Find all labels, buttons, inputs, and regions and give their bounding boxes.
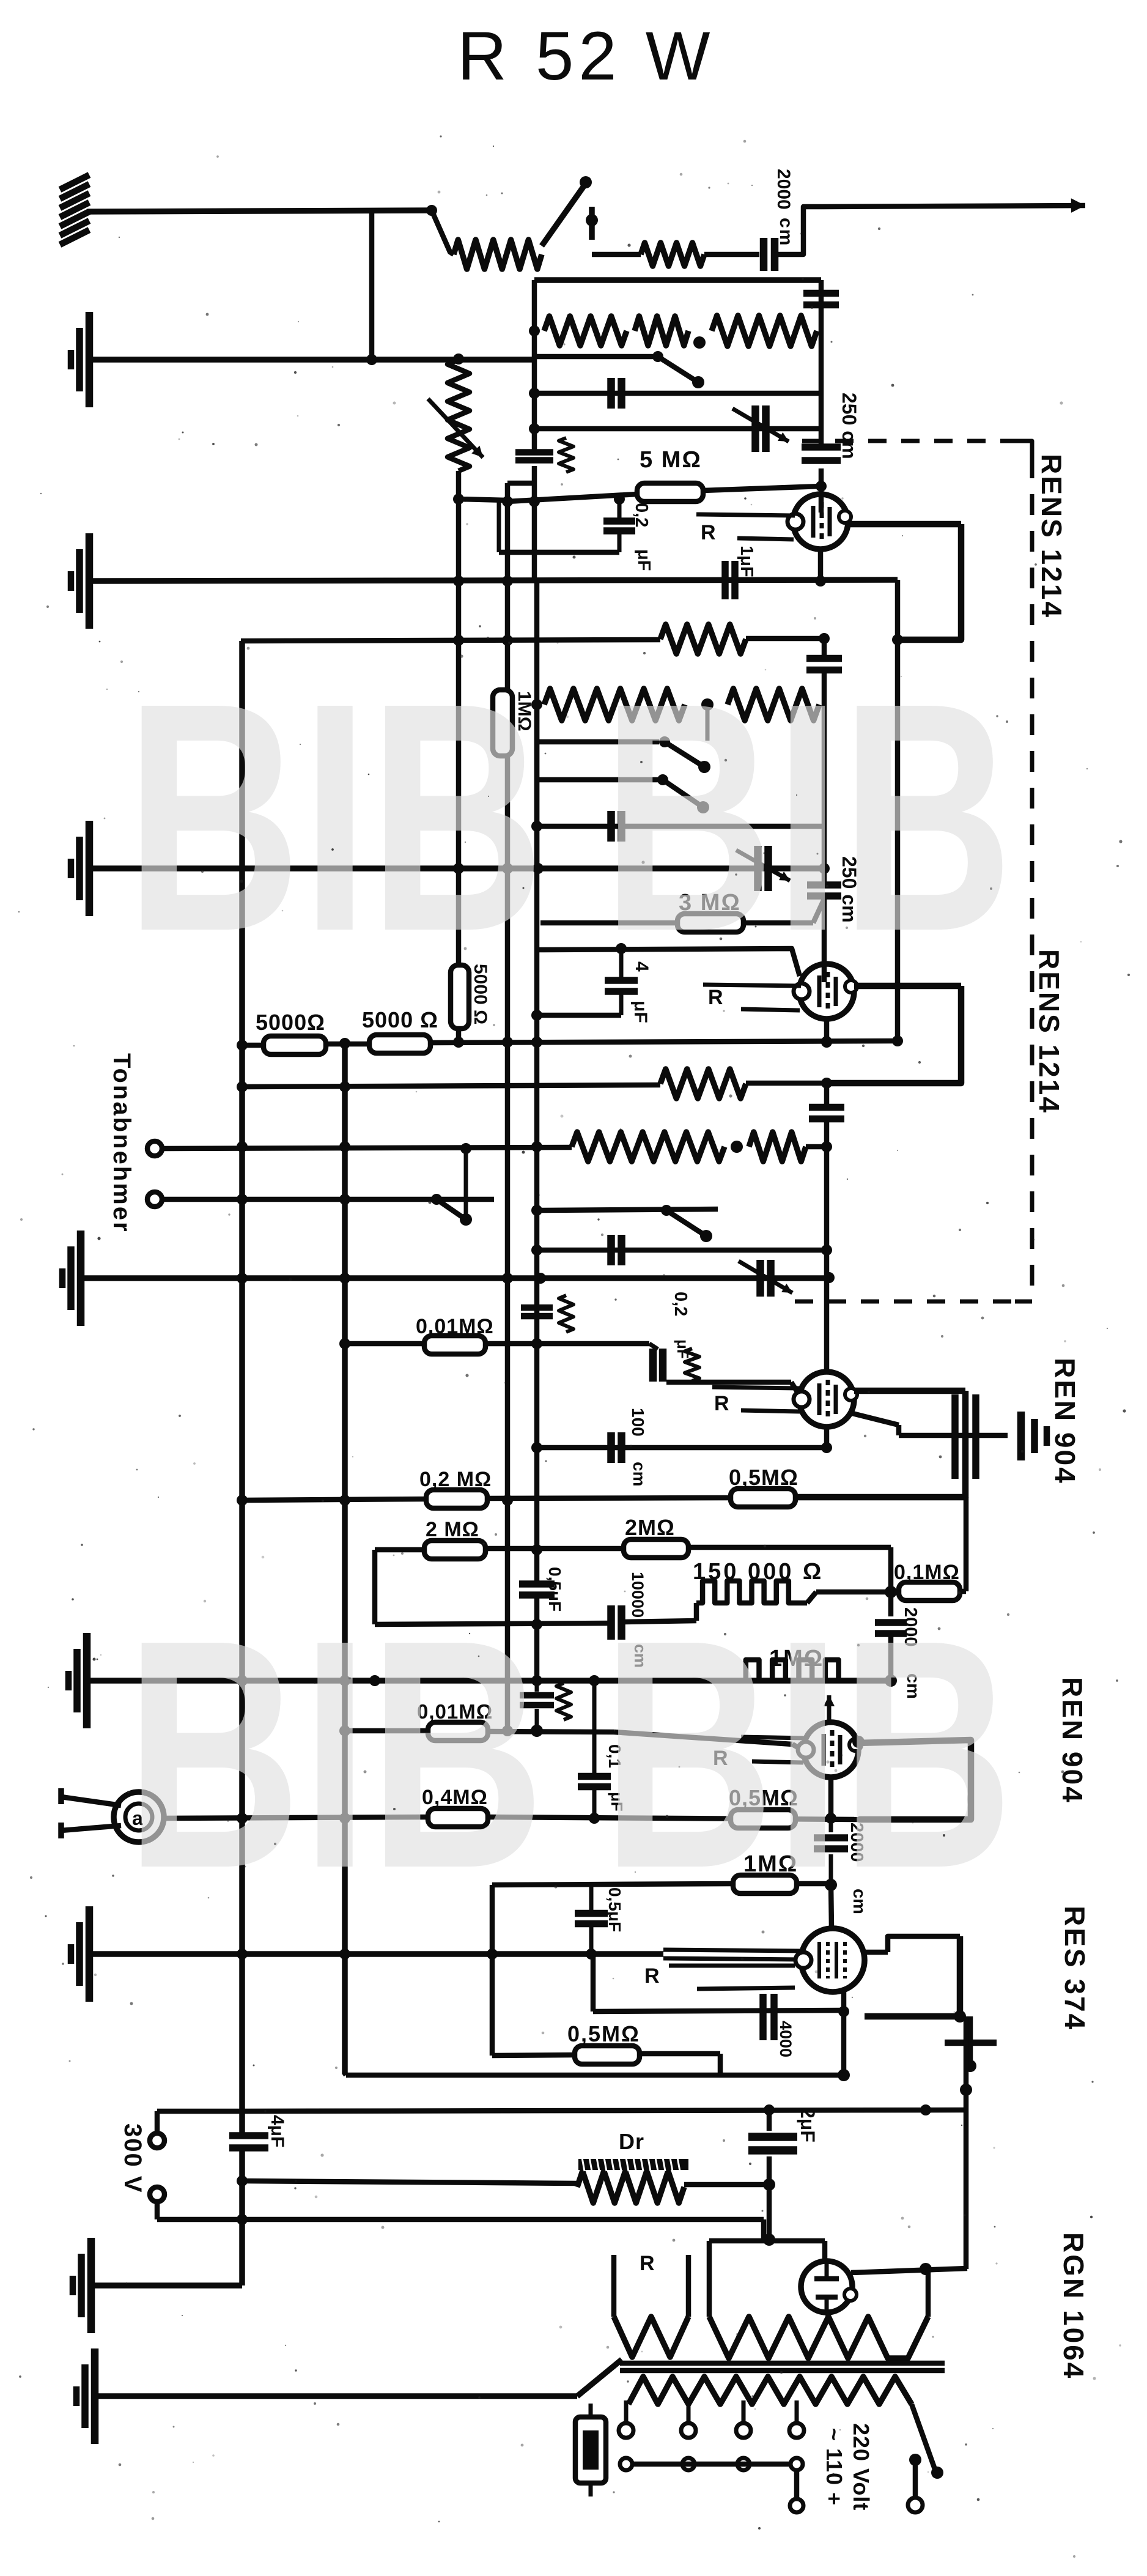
svg-text:cm: cm — [630, 1462, 649, 1486]
capacitor 250cm stage2 — [807, 881, 841, 889]
switch lever det — [661, 1205, 672, 1216]
svg-text:5000 Ω: 5000 Ω — [362, 1007, 438, 1032]
wire corner 613 — [372, 1550, 378, 1624]
dashed screen line stage1 — [802, 439, 1028, 443]
capacitor 250cm anode top — [803, 290, 839, 297]
wire rail G5 — [87, 1678, 893, 1684]
arrow output top right — [822, 205, 1085, 207]
wire V1 anode — [848, 521, 961, 528]
ground G1 — [68, 350, 75, 369]
switch lever box1 — [652, 351, 663, 362]
bus V_E grid-bias — [507, 481, 534, 486]
capacitor cathode RES374 — [759, 1994, 767, 2040]
tube V1 RENS1214 — [793, 494, 848, 549]
wire row 2367 — [540, 1445, 827, 1451]
capacitor grid AF — [535, 1681, 539, 1692]
box2 right edge upper — [822, 638, 827, 659]
capacitor anode2 — [806, 655, 842, 662]
wire rail 1704 — [242, 1043, 264, 1048]
capacitor 2uF — [767, 2110, 772, 2131]
wire rail G4 — [81, 1275, 829, 1281]
wire switch to resistor 2 — [592, 252, 641, 257]
wire meander to box — [807, 1592, 816, 1603]
resistor row 1777 — [660, 1069, 746, 1098]
capacitor box2 — [607, 811, 615, 842]
wire V5 anode — [865, 1950, 888, 1955]
svg-text:BIB: BIB — [602, 635, 1013, 999]
wire rail G3 (box2 bottom) — [89, 865, 824, 872]
transformer secondary teeth — [629, 2377, 912, 2404]
wire box1 varcap row — [534, 426, 821, 432]
wire row 3629 — [242, 2217, 764, 2223]
resistor 0,01Mohm AF — [428, 1722, 488, 1741]
switch lever box2a — [659, 736, 670, 747]
bus V_B — [342, 1043, 348, 2074]
resistor 1Mohm grid — [733, 1875, 797, 1893]
wire V2 anode — [854, 983, 961, 990]
wire V3 cathode right — [850, 1413, 899, 1425]
resistor 3Mohm — [677, 914, 743, 932]
ground G5 — [65, 1671, 72, 1690]
switch lever box2b — [657, 774, 668, 785]
svg-text:4000: 4000 — [776, 2021, 795, 2057]
node row 1875 tap — [731, 1141, 743, 1153]
node rail1704 — [339, 1038, 350, 1049]
node G3 junctions — [453, 863, 464, 874]
resistor 5000ohm b — [369, 1035, 430, 1053]
wire cap2000 det — [888, 1592, 894, 1616]
capacitor det anode — [809, 1104, 844, 1111]
resistor 0,5Mohm out — [575, 2046, 640, 2064]
watermark BIB — [125, 635, 1013, 1936]
coil row box2 — [544, 689, 685, 720]
wire rail G7 — [91, 2282, 242, 2289]
svg-text:100: 100 — [629, 1408, 647, 1437]
secondary tap 1 — [624, 2400, 629, 2423]
choke core bar — [578, 2159, 688, 2170]
switch lever antenna — [542, 183, 586, 246]
wire box2 cap row — [537, 824, 824, 829]
capacitor 2000cm AF — [829, 1818, 833, 1832]
wire row 3393 — [346, 2073, 844, 2078]
wire row 2534 — [375, 1547, 424, 1553]
svg-text:0,5MΩ: 0,5MΩ — [729, 1465, 798, 1490]
output terminal T — [945, 2040, 997, 2046]
bus V_E nodes — [502, 496, 513, 507]
capacitor 1uF cathode — [721, 561, 729, 599]
jack prongs — [61, 1797, 121, 1805]
svg-text:BIB: BIB — [125, 1572, 545, 1936]
svg-text:0,5μF: 0,5μF — [545, 1567, 564, 1612]
transformer core — [620, 2361, 945, 2366]
wire RGN bottom — [827, 2312, 828, 2318]
svg-text:RENS 1214: RENS 1214 — [1033, 949, 1065, 1114]
wire row 2197 — [345, 1341, 424, 1347]
ground G9 right — [1017, 1412, 1025, 1460]
svg-text:cm: cm — [776, 218, 796, 246]
ground G3 — [68, 859, 75, 878]
transformer heater leads — [611, 2255, 617, 2317]
resistor row anode2 — [660, 624, 746, 654]
wire row 3082 — [492, 1884, 733, 1885]
wire resistor2 to cap — [704, 252, 759, 257]
wire box2 lever row 2 — [537, 777, 659, 783]
wire row 1660 — [537, 1013, 621, 1018]
resistor antenna series — [454, 240, 542, 269]
tube V3 REN904 — [799, 1372, 854, 1427]
anode loop V2 — [827, 986, 961, 1083]
small coil glyph stage1 — [559, 438, 573, 472]
box1 right edge — [819, 280, 824, 446]
choke Dr winding — [577, 2171, 684, 2203]
wire meander up — [694, 1603, 699, 1621]
antenna — [60, 175, 89, 190]
dashed screen vertical — [1030, 457, 1035, 1289]
wire row 2830 — [345, 1728, 428, 1734]
trimmer capacitor box2 — [754, 846, 762, 891]
grid lead double line — [663, 1950, 802, 1951]
mains switch pin — [909, 2454, 921, 2466]
svg-text:220 Volt: 220 Volt — [849, 2423, 874, 2511]
resistor 5Mohm — [637, 483, 703, 502]
node G4 junctions — [237, 1273, 248, 1284]
svg-text:2000: 2000 — [773, 169, 794, 210]
node A1 — [426, 205, 437, 216]
wire row 2656 — [375, 1623, 611, 1624]
wire interstage V1 — [895, 580, 901, 1042]
bus V_B bottom corner — [345, 2073, 346, 2075]
wire row 3361 — [492, 2055, 575, 2056]
svg-text:0,5MΩ: 0,5MΩ — [567, 2021, 640, 2046]
node G6 junctions — [237, 1949, 248, 1960]
svg-text:RENS 1214: RENS 1214 — [1036, 454, 1068, 619]
wire row 2453 — [242, 1499, 428, 1500]
svg-text:300 V: 300 V — [119, 2123, 146, 2194]
bus V_G nodes — [529, 325, 540, 336]
wire V1 cathode to rail — [818, 549, 824, 581]
capacitor 0,5uF on V_G — [519, 1580, 555, 1588]
ground G7 — [70, 2276, 76, 2295]
capacitor grid stage2 — [619, 949, 624, 981]
resistor 1Mohm vertical — [493, 690, 512, 756]
wire grid row stage2 — [537, 949, 800, 976]
det right edge — [824, 1083, 830, 1107]
wire row 3289 — [593, 2010, 844, 2012]
mains switch lever — [912, 2404, 935, 2471]
wire row 3664 — [709, 2238, 825, 2244]
heater leads V1 — [696, 514, 795, 516]
wire cap to arrow — [775, 207, 822, 254]
wire V3 cathode down — [824, 1427, 830, 1448]
svg-text:0,2 MΩ: 0,2 MΩ — [419, 1468, 492, 1491]
wire row 2197 b — [486, 1341, 649, 1347]
svg-text:μF: μF — [634, 549, 654, 571]
phones jack — [114, 1792, 164, 1842]
capacitor row 2044 — [607, 1235, 615, 1265]
wire V3 anode — [854, 1388, 965, 1394]
heater leads V2 — [703, 985, 801, 986]
wire grid row stage1 — [507, 494, 637, 502]
resistor 0,1Mohm h — [899, 1582, 960, 1601]
resistor 5000ohm a — [264, 1036, 326, 1054]
bus V_G grid bus — [532, 280, 537, 451]
resistor 1Mohm meander — [739, 1660, 858, 1681]
wire to antenna resistor — [432, 210, 454, 254]
node coil top — [453, 353, 464, 365]
ground G2 — [68, 571, 75, 591]
output transformer loop — [865, 1936, 960, 2016]
tube V4 REN904 — [803, 1722, 858, 1777]
heater leads V5 — [669, 1964, 795, 1968]
wire rail G6 (output grid) — [89, 1951, 663, 1957]
wire row 3Mohm — [540, 920, 682, 926]
small coil glyph AF — [556, 1683, 571, 1720]
small resistor glyph det — [685, 1349, 699, 1381]
wire box1 cap row — [534, 391, 821, 396]
svg-text:1μF: 1μF — [737, 546, 756, 577]
svg-text:Dr: Dr — [619, 2129, 644, 2154]
resistor 0,5Mohm AF — [731, 1810, 795, 1828]
box2 left edge — [534, 705, 540, 868]
capacitor grid cap det — [649, 1349, 657, 1382]
capacitor left edge box1 — [515, 449, 553, 456]
heater leads V3 — [712, 1387, 801, 1388]
wire rail G1 — [89, 357, 534, 363]
wire row 1875 end — [806, 1144, 827, 1150]
svg-text:REN 904: REN 904 — [1057, 1677, 1088, 1804]
antenna coil — [448, 360, 470, 471]
svg-text:0,01MΩ: 0,01MΩ — [416, 1315, 494, 1338]
wire cathode row stage1 — [499, 550, 619, 555]
resistor 150000ohm — [696, 1581, 807, 1603]
wire rail G8 — [95, 2393, 577, 2399]
box1 top edge — [534, 277, 821, 283]
svg-text:2MΩ: 2MΩ — [625, 1515, 675, 1540]
resistor 0,4Mohm — [428, 1808, 488, 1827]
svg-text:BIB: BIB — [125, 635, 545, 999]
svg-text:5000Ω: 5000Ω — [256, 1010, 325, 1035]
svg-text:μF: μF — [674, 1339, 692, 1359]
bus V_A — [239, 641, 245, 2134]
dashed screen det — [795, 1300, 1015, 1304]
resistor 0,2Mohm — [426, 1490, 487, 1508]
wire RGN right — [851, 2268, 967, 2273]
capacitor 0,2uF stage1 — [497, 502, 501, 552]
svg-text:250 cm: 250 cm — [838, 393, 860, 459]
wire row 2973 — [164, 1817, 428, 1818]
wire B+ drop — [964, 2016, 969, 2269]
dashed screen corner — [1018, 441, 1032, 457]
wire row 1777 — [242, 1085, 660, 1087]
wire row 3452 — [242, 2110, 966, 2111]
switch lever pickup — [431, 1194, 442, 1205]
capacitor 250cm grid — [802, 443, 841, 451]
resistor 0,01Mohm det — [424, 1336, 485, 1354]
trimmer capacitor box1 — [751, 405, 759, 452]
svg-text:R: R — [644, 1964, 660, 1988]
resistor 5000ohm vertical — [451, 965, 469, 1029]
resistor row 1875 b — [749, 1132, 806, 1161]
wire 0,1Mohm up — [960, 1589, 966, 1594]
terminal Tonabnehmer 2 — [147, 1192, 162, 1207]
svg-text:RGN 1064: RGN 1064 — [1058, 2232, 1090, 2380]
svg-text:2 MΩ: 2 MΩ — [426, 1518, 479, 1541]
wire row 1979 — [540, 1209, 718, 1210]
wire node A1 down — [369, 212, 375, 361]
terminal Tonabnehmer 1 — [147, 1141, 162, 1156]
wire row 1961 — [163, 1197, 494, 1202]
wire grid to tube3 — [666, 1380, 791, 1385]
wire corner 1178 — [718, 2054, 723, 2075]
anode loop V1 — [898, 524, 961, 640]
secondary tap 4 — [795, 2400, 799, 2423]
bus V_A nodes — [237, 1040, 248, 1051]
ground G6 — [68, 1944, 75, 1964]
choke row — [242, 2181, 577, 2183]
capacitor 100cm — [607, 1432, 615, 1463]
capacitor 10000cm — [607, 1605, 615, 1640]
svg-text:R: R — [714, 1392, 729, 1415]
node A2 — [366, 354, 377, 365]
fuse — [575, 2417, 606, 2483]
resistor row 1875 a — [572, 1132, 725, 1161]
coil row box1 — [544, 316, 627, 346]
terminal 300V plus — [150, 2133, 164, 2148]
svg-text:0,2: 0,2 — [671, 1292, 690, 1316]
svg-text:R: R — [640, 2252, 655, 2275]
transformer primary teeth B — [709, 2317, 928, 2358]
wire V2 cathode — [824, 1019, 830, 1043]
capacitor box1 — [607, 378, 615, 409]
wire row 2830 b — [488, 1731, 614, 1732]
svg-text:4μF: 4μF — [267, 2115, 287, 2147]
svg-text:BIB: BIB — [602, 1572, 1013, 1936]
svg-text:μF: μF — [630, 1001, 651, 1023]
bus V_D coil column — [456, 471, 462, 966]
secondary tap 3 — [742, 2400, 746, 2423]
wire V 1359 to tube — [831, 1884, 832, 1928]
wire V5 cathode — [841, 1991, 847, 2075]
wire V4 cathode — [828, 1777, 834, 1818]
ground G8 — [73, 2386, 80, 2406]
svg-text:Tonabnehmer: Tonabnehmer — [108, 1053, 135, 1234]
small coil glyph det — [559, 1295, 573, 1332]
capacitor 2000cm top — [760, 238, 768, 271]
bus V_B nodes — [339, 1081, 350, 1092]
svg-text:5 MΩ: 5 MΩ — [640, 447, 702, 473]
arrow coil variable — [428, 399, 483, 457]
terminal 300V minus — [150, 2187, 164, 2202]
transformer primary teeth A — [614, 2317, 688, 2357]
node G2-coil — [453, 576, 464, 587]
anode loop V3 — [796, 1391, 965, 1497]
secondary tap 2 — [687, 2400, 691, 2423]
switch pivot — [586, 214, 598, 226]
svg-text:0,2: 0,2 — [632, 503, 651, 527]
resistor 2Mohm a — [424, 1541, 485, 1559]
wire row 2044 — [540, 1248, 827, 1253]
node G5 junctions — [237, 1675, 248, 1686]
arrow V4 anode up — [827, 1695, 832, 1723]
capacitor cathode bypass — [951, 1394, 959, 1479]
svg-text:R: R — [701, 521, 716, 544]
resistor 0,5Mohm det — [731, 1489, 795, 1507]
heater leads V4 — [741, 1737, 805, 1738]
svg-text:~ 110 +: ~ 110 + — [822, 2428, 847, 2506]
wire box1 lever row — [534, 354, 658, 360]
wire antenna to switch node — [87, 210, 432, 212]
tube V5 RES374 — [801, 1928, 865, 1992]
box2 right edge lower — [822, 897, 827, 982]
ground G4 — [59, 1268, 66, 1288]
bus V_A top corner — [240, 641, 245, 643]
capacitor 0,1uF bus — [592, 1681, 597, 1775]
capacitor 4uF on bus V_A — [229, 2132, 268, 2139]
voltage selector link — [620, 2458, 632, 2470]
resistor 2Mohm b — [624, 1539, 688, 1558]
capacitor grid det — [521, 1305, 553, 1311]
wire rail G2 (cathode rail 1) — [89, 580, 898, 581]
svg-text:RES 374: RES 374 — [1059, 1906, 1091, 2031]
tube V2 RENS1214 — [799, 964, 854, 1019]
capacitor 0,5uF out — [589, 1885, 594, 1912]
resistor 2 top row — [641, 243, 704, 266]
wire V x805 — [490, 1885, 495, 2056]
trimmer capacitor det — [756, 1260, 764, 1297]
tube V6 RGN1064 — [801, 2261, 852, 2312]
wire box2 lever row 1 — [537, 739, 659, 745]
svg-text:REN 904: REN 904 — [1049, 1358, 1081, 1485]
svg-text:2μF: 2μF — [797, 2108, 819, 2142]
wire row 1875 — [163, 1147, 572, 1149]
anode loop V4 — [857, 1740, 971, 1819]
svg-text:R 52 W: R 52 W — [457, 18, 715, 94]
wire row anode2 — [241, 640, 660, 641]
